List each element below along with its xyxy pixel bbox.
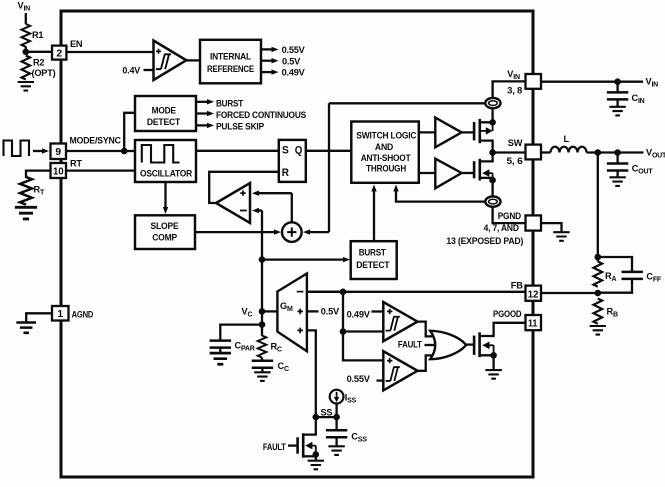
svg-text:0.49V: 0.49V	[347, 310, 371, 320]
ground below CPAR	[210, 353, 231, 364]
wire FAULT stub	[425, 344, 437, 346]
capacitor CPAR	[210, 341, 231, 348]
wire upper comparator to OR gate	[418, 322, 434, 337]
pin 2 EN	[52, 46, 66, 60]
ground PGND	[553, 232, 569, 241]
svg-text:5, 6: 5, 6	[507, 156, 523, 166]
svg-text:2: 2	[56, 49, 62, 60]
wire EN pin to comparator	[66, 51, 153, 53]
wire GM mid plus to 0.5V	[307, 310, 319, 312]
op-amp overvoltage comparator 0.49V	[383, 302, 417, 341]
wire GM output to VC	[262, 310, 277, 312]
svg-text:R2: R2	[33, 58, 44, 68]
wire comparator output to latch R	[209, 172, 279, 203]
wire arrow burst detect to switch logic	[373, 191, 375, 241]
op-amp EN comparator	[154, 41, 187, 81]
svg-text:(OPT): (OPT)	[32, 68, 56, 78]
wire SS rail	[316, 416, 337, 418]
gate OR fault	[430, 331, 466, 359]
current sense oval top	[485, 98, 500, 108]
ground below FAULT FET	[308, 461, 324, 470]
wire GM minus to FB line	[307, 291, 343, 293]
wire SW node to pin	[493, 151, 526, 153]
wire FB internal	[307, 291, 526, 293]
svg-text:0.4V: 0.4V	[122, 65, 141, 75]
wire arrow 0.49V	[261, 71, 272, 73]
wire pin 9 to oscillator	[66, 150, 135, 152]
pin SW 5,6	[526, 145, 542, 160]
wire SW pin to inductor	[541, 151, 551, 153]
latch SR	[279, 140, 306, 182]
wire arrow FORCED CONTINUOUS	[196, 112, 208, 114]
block slope comp	[135, 215, 195, 249]
svg-text:12: 12	[528, 289, 539, 300]
node mode/sync junction	[121, 148, 128, 155]
wire source to PGND pin	[493, 178, 526, 223]
wire PGND pin to ground	[541, 223, 562, 232]
op-amp current comparator	[216, 183, 250, 223]
buffer top driver	[419, 131, 436, 133]
svg-text:SS: SS	[321, 407, 333, 417]
wire R1 to junction	[25, 47, 27, 53]
transistor PGOOD NMOS	[473, 336, 476, 355]
svg-text:FAULT: FAULT	[263, 442, 286, 452]
node VC	[259, 308, 266, 315]
wire OR gate to PGOOD FET gate	[466, 343, 474, 345]
node COUT junction	[614, 149, 621, 156]
svg-text:9: 9	[55, 147, 61, 158]
svg-text:PULSE SKIP: PULSE SKIP	[216, 121, 264, 131]
svg-text:EN: EN	[70, 39, 83, 49]
wire top sense horizontal	[329, 102, 486, 104]
wire sense vertical	[328, 103, 330, 232]
wire mode/sync to mode detect	[124, 113, 135, 151]
wire summing vertical to plus input	[291, 193, 293, 222]
ground below CSS	[328, 446, 344, 455]
pin VIN 3,8	[526, 74, 542, 89]
wire arrow to burst detect	[262, 258, 343, 260]
capacitor CC	[261, 358, 263, 361]
svg-text:THROUGH: THROUGH	[366, 163, 406, 173]
block oscillator	[135, 140, 196, 182]
resistor RB	[594, 299, 603, 324]
wire pin 10 to oscillator	[66, 169, 135, 171]
pin 10 RT	[51, 163, 67, 178]
block switch logic	[351, 122, 419, 183]
node EN divider junction	[23, 49, 30, 56]
node comparator branch	[340, 328, 347, 335]
wire 0.55V stub	[377, 379, 384, 381]
svg-text:RT: RT	[70, 158, 82, 168]
svg-text:ANTI-SHOOT: ANTI-SHOOT	[361, 153, 411, 163]
ground below PGOOD FET	[485, 370, 501, 379]
ground below R2	[18, 82, 34, 91]
current sense oval bottom	[485, 196, 500, 206]
resistor RA	[594, 262, 603, 287]
wire divider junction to pin 2	[26, 51, 52, 53]
svg-text:BURST: BURST	[216, 99, 244, 109]
wire arrow PULSE SKIP	[196, 124, 208, 126]
wire AGND pin to ground	[26, 313, 52, 322]
svg-text:BURST: BURST	[359, 248, 387, 258]
pin 11 PGOOD	[526, 315, 542, 330]
wire CPAR branch	[220, 325, 262, 341]
svg-text:S: S	[282, 145, 289, 157]
svg-text:R1: R1	[32, 30, 43, 40]
wire lower comparator to OR gate	[418, 355, 434, 370]
svg-text:FORCED CONTINUOUS: FORCED CONTINUOUS	[216, 110, 306, 120]
wire FB tap down to RA	[597, 153, 599, 262]
svg-text:0.5V: 0.5V	[282, 56, 301, 66]
wire 0.49V stub	[372, 310, 384, 312]
svg-text:PGND: PGND	[498, 211, 522, 221]
block internal reference	[200, 40, 261, 84]
svg-text:PGOOD: PGOOD	[493, 309, 522, 319]
wire VIN stub to R1	[25, 13, 27, 24]
ground below RT	[15, 207, 37, 219]
wire GM bottom plus to SS	[307, 330, 316, 417]
ground below COUT	[609, 177, 625, 186]
svg-text:FB: FB	[511, 280, 523, 290]
op-amp undervoltage comparator 0.55V	[383, 351, 417, 390]
summing node circle	[282, 222, 302, 242]
svg-text:11: 11	[528, 319, 538, 330]
svg-text:MODE/SYNC: MODE/SYNC	[70, 135, 122, 145]
svg-text:OSCILLATOR: OSCILLATOR	[140, 169, 193, 179]
wire FAULT label to gate	[288, 444, 298, 446]
capacitor CFF	[622, 272, 643, 279]
node RA CFF junction	[595, 254, 602, 261]
wire CFF branch	[598, 257, 632, 293]
pin 9 MODE/SYNC	[51, 144, 67, 160]
svg-text:SLOPE: SLOPE	[151, 221, 179, 231]
pin 12 FB	[526, 286, 542, 301]
ground below CC	[254, 372, 270, 381]
node SS left	[313, 414, 320, 421]
wire arrow 0.55V	[261, 48, 272, 50]
svg-text:DETECT: DETECT	[356, 260, 390, 270]
node FB	[595, 290, 602, 297]
block mode detect	[135, 96, 196, 131]
node FB comparator branch	[340, 289, 347, 296]
capacitor CSS	[335, 417, 337, 430]
wire inductor to VOUT	[587, 151, 644, 153]
wire comparator to internal reference	[186, 59, 200, 61]
svg-text:Q: Q	[295, 145, 303, 157]
wire 0.4V to comparator	[144, 69, 154, 71]
resistor R1	[22, 24, 31, 47]
svg-text:MODE: MODE	[152, 106, 176, 116]
node CPAR branch	[259, 321, 266, 328]
wire pin 10 to RT resistor	[26, 171, 51, 178]
capacitor COUT	[616, 153, 618, 164]
resistor RT	[20, 177, 32, 205]
wire arrow VC line to comparator minus	[259, 209, 262, 211]
node SW	[489, 149, 496, 156]
wire FB pin to divider	[541, 292, 598, 294]
transistor bottom NMOS	[462, 172, 475, 174]
wire arrow 0.5V	[261, 60, 272, 62]
wire arrow clock to pin 9	[33, 150, 42, 152]
svg-text:3, 8: 3, 8	[507, 85, 522, 95]
wire ISS to SS	[335, 404, 337, 418]
ground below RB	[590, 326, 606, 335]
inductor L	[551, 147, 587, 153]
ground below CIN	[609, 107, 625, 116]
svg-text:AND: AND	[375, 142, 394, 152]
node burst branch	[259, 256, 266, 263]
buffer bottom driver	[419, 172, 436, 174]
node FB tap	[595, 149, 602, 156]
svg-text:0.55V: 0.55V	[282, 45, 306, 55]
node SS right	[333, 414, 340, 421]
svg-text:13 (EXPOSED PAD): 13 (EXPOSED PAD)	[446, 236, 523, 246]
pin 1 AGND	[52, 306, 69, 321]
svg-text:SW: SW	[508, 138, 523, 148]
resistor RC	[258, 336, 267, 358]
transistor top PMOS	[462, 131, 475, 133]
svg-text:R: R	[282, 167, 289, 179]
svg-text:0.55V: 0.55V	[347, 374, 371, 384]
svg-text:L: L	[564, 134, 570, 144]
svg-text:4, 7, AND: 4, 7, AND	[484, 223, 520, 233]
ground AGND	[16, 323, 36, 333]
oscillator waveform glyph	[142, 145, 180, 163]
wire arrow slope comp to summing node	[195, 231, 274, 233]
wire VIN pin to external	[541, 81, 643, 83]
wire arrow sense line to summing node	[310, 231, 329, 233]
svg-text:1: 1	[57, 309, 63, 320]
node CIN junction	[614, 78, 621, 85]
svg-text:10: 10	[53, 167, 64, 178]
wire oscillator to latch S	[196, 150, 279, 152]
clock input waveform	[4, 141, 30, 157]
wire arrow bottom sense to switch logic	[396, 191, 486, 202]
wire latch Q to switch logic	[306, 150, 352, 152]
wire VC vertical	[261, 211, 263, 337]
svg-text:0.49V: 0.49V	[282, 68, 306, 78]
IC boundary	[61, 11, 533, 477]
wire FB branch to comparators	[343, 292, 383, 361]
svg-text:COMP: COMP	[152, 233, 177, 243]
node VIN (top-left supply)	[0, 0, 1, 1]
pin PGND	[526, 215, 542, 230]
wire arrow oscillator to slope comp	[164, 182, 166, 208]
transistor FAULT NMOS	[296, 437, 299, 453]
wire arrow summing to comparator plus	[259, 192, 292, 194]
capacitor CIN	[616, 82, 618, 93]
svg-text:0.5V: 0.5V	[321, 306, 340, 316]
block burst detect	[351, 241, 397, 279]
resistor R2	[22, 56, 31, 80]
svg-text:AGND: AGND	[72, 310, 94, 320]
wire arrow BURST	[196, 101, 208, 103]
svg-text:REFERENCE: REFERENCE	[207, 64, 254, 74]
svg-text:INTERNAL: INTERNAL	[210, 51, 252, 61]
svg-text:SWITCH LOGIC: SWITCH LOGIC	[356, 130, 417, 140]
svg-text:FAULT: FAULT	[398, 340, 422, 350]
error amp GM	[277, 274, 307, 352]
wire drain to VIN pin	[493, 81, 526, 122]
current source ISS	[330, 390, 344, 404]
svg-text:DETECT: DETECT	[147, 117, 181, 127]
